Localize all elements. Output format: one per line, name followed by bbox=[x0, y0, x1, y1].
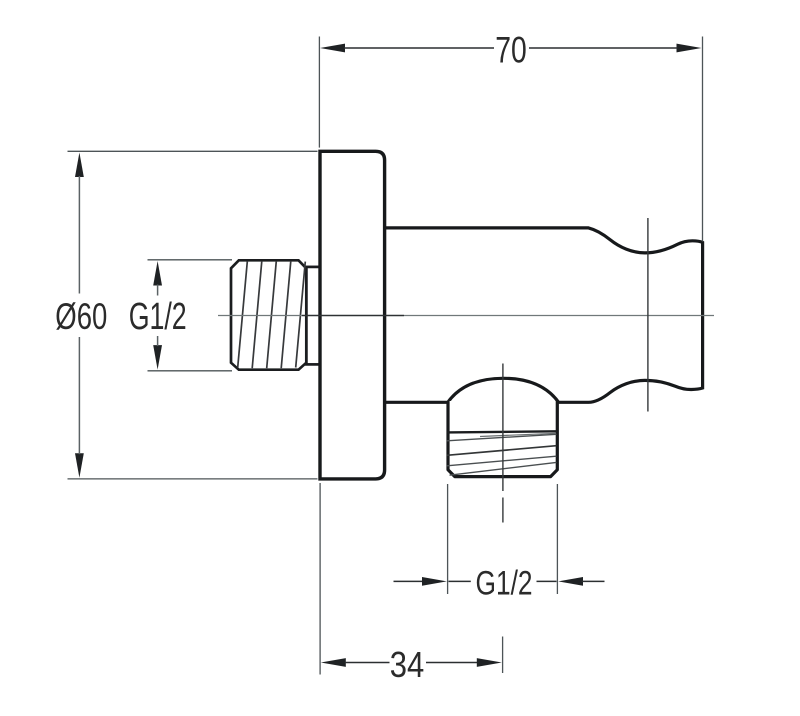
body tube with holder knob and outlet dome bbox=[384, 228, 703, 402]
outlet thread top line bbox=[447, 431, 557, 432]
dim G1/2 outlet: right extension line bbox=[556, 484, 558, 594]
dim 34: left extension line bbox=[319, 483, 321, 675]
dim 34: shaft left bbox=[345, 662, 390, 664]
nut collar bbox=[306, 267, 321, 365]
svg-text:G1/2: G1/2 bbox=[129, 296, 187, 338]
dim G1/2 nut: bottom extension line bbox=[148, 370, 233, 372]
outlet connector G1/2 (bottom, threaded) bbox=[448, 401, 557, 477]
outlet thread line 4 bbox=[447, 456, 557, 466]
dim Ø60: bottom extension line bbox=[68, 478, 318, 480]
dim G1/2 outlet: left extension line bbox=[447, 484, 449, 594]
dim 34: shaft right bbox=[426, 662, 478, 664]
dim G1/2 outlet: right inner stub bbox=[537, 580, 557, 582]
dim 70: shaft right bbox=[529, 47, 678, 49]
dim G1/2 nut: down arrowhead bbox=[153, 345, 162, 370]
nut hatch line 4 bbox=[281, 261, 291, 368]
dim 34: right extension line bbox=[502, 637, 504, 674]
dim G1/2 nut: shaft lower bbox=[157, 336, 159, 346]
dim 70: left arrowhead bbox=[320, 44, 345, 53]
nut hatch line 3 bbox=[267, 261, 277, 368]
dim G1/2 outlet: right arrowhead (pointing left) bbox=[558, 577, 583, 586]
nut hatch line 1 bbox=[238, 262, 248, 368]
wall flange Ø60 bbox=[320, 151, 385, 479]
svg-text:34: 34 bbox=[390, 644, 425, 685]
wall nut G1/2 (hatched octagon) bbox=[231, 260, 306, 369]
dim G1/2 nut: top extension line bbox=[148, 259, 233, 261]
outlet centerline dash below bbox=[502, 498, 504, 523]
dim 70: right extension line bbox=[702, 37, 704, 242]
dim 70: left extension line bbox=[318, 37, 320, 148]
dim G1/2 nut: shaft upper bbox=[157, 285, 159, 296]
dim G1/2 outlet: left inner stub bbox=[449, 580, 471, 582]
outlet vertical centerline bbox=[502, 364, 504, 492]
nut hatch line 2 bbox=[252, 261, 262, 368]
svg-text:70: 70 bbox=[495, 29, 527, 70]
outlet thread line 2 bbox=[447, 434, 557, 441]
holder knob vertical centerline bbox=[647, 218, 649, 412]
dim 34: left arrowhead bbox=[321, 658, 346, 667]
svg-text:Ø60: Ø60 bbox=[55, 296, 107, 337]
horizontal centerline (right gray part) bbox=[404, 315, 714, 317]
horizontal centerline (left gray part) bbox=[218, 315, 302, 317]
svg-text:G1/2: G1/2 bbox=[476, 564, 533, 602]
dim Ø60: top extension line bbox=[68, 150, 318, 152]
dim G1/2 nut: up arrowhead bbox=[153, 261, 162, 286]
dim 70: shaft left bbox=[344, 47, 494, 49]
dim Ø60: down arrowhead bbox=[75, 453, 84, 478]
dim G1/2 outlet: right outside shaft bbox=[582, 580, 605, 582]
dim 70: right arrowhead bbox=[677, 44, 702, 53]
dim 34: right arrowhead bbox=[477, 658, 502, 667]
outlet thread line 1 bbox=[480, 433, 556, 436]
dim G1/2 outlet: left outside shaft bbox=[394, 580, 425, 582]
dim Ø60: up arrowhead bbox=[75, 153, 84, 178]
outlet thread line 3 bbox=[447, 446, 557, 456]
dim G1/2 outlet: left arrowhead (pointing right) bbox=[422, 577, 447, 586]
nut hatch line 5 bbox=[296, 262, 306, 368]
outlet thread line 5 bbox=[450, 462, 557, 475]
horizontal centerline (dark part across flange) bbox=[302, 315, 404, 317]
dim Ø60: shaft lower bbox=[78, 337, 80, 454]
dim Ø60: shaft upper bbox=[78, 176, 80, 294]
